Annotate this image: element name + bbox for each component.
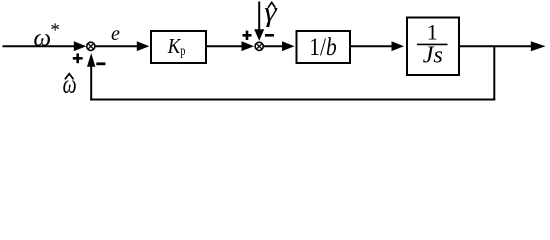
wire: input reference line [3,41,87,51]
label − at junction 2 [265,34,274,37]
label ω̂ (estimated speed) [63,69,77,98]
wire: feedback down segment [493,46,495,99]
svg-text:e: e [111,23,120,45]
wire: Kp to junction 2 [207,41,254,51]
wire: feedback bottom segment [90,99,495,101]
svg-text:K: K [167,34,181,58]
svg-text:ω: ω [33,25,51,52]
label + at junction 2 [243,31,252,40]
svg-text:*: * [50,20,60,41]
svg-text:1: 1 [427,20,438,45]
wire: output [460,41,546,51]
svg-text:Js: Js [423,43,443,69]
block 1/b [297,31,351,63]
summing junction 2 [255,42,263,50]
label − at junction 1 [96,62,105,65]
wire: 1/b to 1/Js [351,41,404,51]
label γ̂ (estimated disturbance) [264,0,278,28]
block 1/Js (inertia integrator) [407,18,459,76]
wire: junction 2 to 1/b [264,41,295,51]
svg-text:1/b: 1/b [309,34,336,61]
label + at junction 1 [73,53,83,63]
wire: feedback up segment into junction 1 [87,53,95,101]
wire: γ̂ disturbance input arrow [254,2,264,41]
label ω* (reference speed) [33,20,60,52]
svg-text:p: p [180,44,185,59]
block Kp (proportional gain) [151,31,206,63]
summing junction 1 [87,42,95,50]
wire: junction 1 to Kp [96,41,150,51]
